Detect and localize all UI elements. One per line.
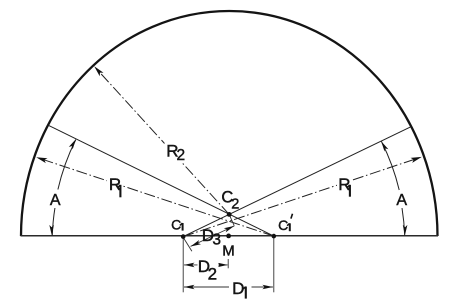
label R1 left [109,175,121,198]
label C2 [221,189,239,213]
node C1-prime [272,234,277,239]
label mask A left [48,192,62,208]
label R1 right [338,175,350,197]
label mask R1 right [337,175,353,199]
svg-text:A: A [50,192,61,209]
dimension extension line below C1 [182,238,184,292]
label D2 [198,257,217,284]
label mask R1 left [107,175,122,200]
svg-text:R: R [109,175,121,194]
dimension line D2 [184,263,228,268]
dimension D3 extension from C1 [184,238,192,251]
svg-text:M: M [222,242,235,259]
svg-text:3: 3 [212,232,221,249]
label C1-prime [278,214,292,234]
svg-text:R: R [338,175,350,194]
label mask D2 [198,258,219,281]
wire C1-prime to arc through C2 [49,125,274,236]
mirror arc [21,11,438,236]
label mask D1 [229,279,252,301]
dimension D3 extension from C2 [229,214,234,225]
radius line R1 left (from C1-prime) [36,157,274,236]
dimension line D1 [184,285,273,290]
baseline [21,235,439,237]
angle arc A left [49,139,76,236]
angle arc A right [381,141,407,235]
label D3 [202,226,221,249]
svg-text:2: 2 [231,196,239,212]
radius line R1 right (from C1) [183,157,422,237]
svg-text:D: D [232,279,244,298]
extension tick below M [227,259,229,268]
label D1 [232,279,246,299]
label C1 [171,217,183,233]
dimension line D3 [191,226,235,247]
node M [226,234,231,239]
label mask R2 [165,142,188,163]
dimension extension line below C1-prime [273,238,275,292]
node C2 [227,212,232,217]
svg-text:A: A [396,192,407,209]
svg-text:2: 2 [208,265,217,284]
node C1 [181,234,186,239]
radius line R2 (from C2) [94,66,229,214]
wire C1 to arc through C2 [183,127,411,237]
label mask A right [395,192,409,208]
label R2 [166,141,185,164]
svg-text:2: 2 [177,147,186,164]
